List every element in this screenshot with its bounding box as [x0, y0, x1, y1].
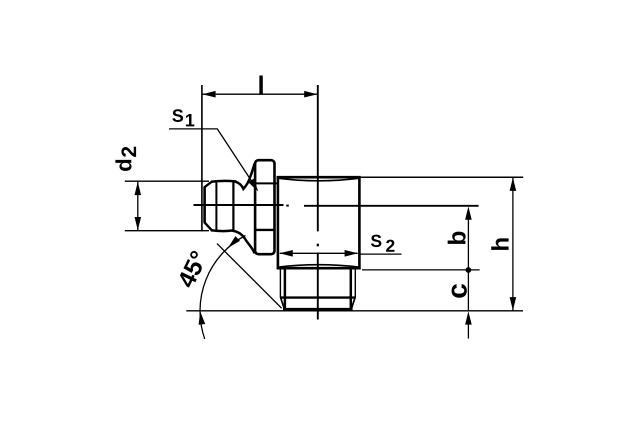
body top chamfer arc	[278, 178, 360, 181]
thread left outer line	[279, 269, 281, 297]
hex chamfer line top	[256, 182, 278, 184]
label h	[491, 238, 508, 249]
baseline	[186, 310, 523, 312]
d2 extension bottom	[125, 230, 209, 232]
thread centerline (vertical axis, dash-dot) + l right extension	[317, 85, 319, 320]
arc arrow at diagonal	[228, 236, 240, 248]
d2 extension top	[125, 180, 209, 182]
S1 leader arrowhead	[248, 179, 258, 192]
c arrow below baseline	[465, 311, 472, 324]
thread right chamfer	[352, 297, 356, 308]
top extension line (body top to h)	[361, 176, 524, 178]
bottom extension line (body bottom to b/c)	[362, 269, 480, 271]
thread left inner line	[284, 269, 287, 309]
d2 arrow up	[135, 182, 142, 195]
body right edge	[358, 176, 361, 269]
label 45deg	[177, 250, 208, 290]
ball top edge	[211, 180, 236, 183]
b/c dot	[466, 267, 472, 273]
45 degree arc	[200, 236, 245, 339]
head centerline (horizontal axis, dash-dot)	[194, 204, 479, 207]
S2 dimension line	[280, 252, 358, 254]
ball tangent line	[215, 182, 217, 230]
b dimension line	[467, 216, 469, 270]
body bottom edge	[277, 267, 361, 270]
S2 leader	[360, 253, 402, 255]
ball bottom chamfer	[204, 222, 212, 230]
hex s1 outline	[255, 160, 274, 254]
h arrow bottom	[510, 297, 517, 310]
c dimension line	[467, 270, 469, 311]
S2 arrow left	[280, 250, 293, 257]
hex chamfer line bottom	[256, 229, 275, 231]
neck top profile	[235, 164, 255, 189]
body (s2 hex) left edge	[277, 176, 280, 269]
label b	[448, 232, 466, 244]
d2 arrow down	[135, 217, 142, 230]
label d2	[115, 147, 136, 171]
label c	[452, 284, 467, 298]
label S1	[172, 109, 194, 126]
arc arrow at baseline	[199, 311, 206, 325]
thread bottom edge	[283, 308, 353, 311]
ball top chamfer	[204, 182, 212, 188]
l extension line left	[201, 85, 203, 231]
l arrow right	[304, 91, 317, 98]
h dimension line	[512, 178, 514, 311]
S1 leader	[169, 129, 257, 189]
thread chamfer line	[280, 296, 356, 298]
thread right inner line	[350, 269, 353, 309]
label l	[259, 75, 262, 93]
thread right outer line	[354, 269, 356, 297]
d2 dimension line	[137, 182, 139, 231]
body top edge	[277, 176, 361, 179]
dimension l line	[202, 93, 318, 95]
ball-neck boundary line	[232, 182, 234, 230]
body bottom chamfer arc	[278, 265, 360, 268]
h arrow top	[510, 178, 517, 191]
label S2	[371, 235, 395, 252]
thread left chamfer	[280, 297, 284, 308]
45 degree diagonal	[217, 244, 282, 309]
l arrow left	[202, 91, 215, 98]
ball head flat edge	[203, 187, 206, 223]
b dimension arrow up	[465, 206, 472, 219]
c arrow tail	[467, 322, 469, 339]
S2 arrow right	[345, 250, 358, 257]
neck bottom profile	[232, 231, 255, 254]
ball bottom edge	[211, 229, 233, 232]
